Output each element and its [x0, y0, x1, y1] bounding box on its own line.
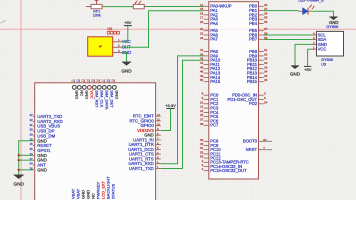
svg-text:12: 12 [157, 113, 160, 117]
svg-text:13: 13 [83, 79, 85, 82]
svg-text:GND: GND [121, 68, 132, 73]
svg-text:4P: 4P [99, 45, 102, 49]
U4 right pins RTC/UART1 [128, 113, 161, 171]
U4 bottom pins power/control [71, 176, 116, 199]
U1 right pins PD0 PD1 PD2 [228, 92, 268, 107]
svg-text:34: 34 [30, 162, 33, 166]
ground symbol (LED) [329, 17, 337, 20]
svg-text:4: 4 [202, 167, 204, 171]
U4 left pins UART2/USB/control [30, 113, 63, 172]
svg-text:GND: GND [290, 72, 301, 77]
wire NRST stub [264, 149, 272, 151]
svg-text:38: 38 [200, 122, 204, 126]
svg-text:UART1_TXD: UART1_TXD [129, 166, 154, 171]
svg-text:22: 22 [30, 118, 33, 122]
U1 right pins group PB8-PB15 [247, 48, 268, 84]
svg-text:PC7: PC7 [210, 123, 219, 128]
svg-text:23: 23 [200, 36, 204, 40]
svg-text:PB4: PB4 [249, 21, 258, 26]
svg-text:18: 18 [108, 79, 110, 82]
svg-text:PA4: PA4 [210, 21, 218, 26]
wire U2 OUT to U1 PA1 [121, 11, 204, 47]
svg-text:12: 12 [78, 79, 80, 82]
wire BOOT0 stub [264, 140, 272, 142]
potentiometer RP1 [86, 0, 104, 9]
wire U2 VCC to +5V [121, 26, 128, 42]
svg-text:NRST: NRST [246, 147, 258, 152]
junction dot [18, 169, 20, 171]
svg-text:BOOT0: BOOT0 [243, 139, 258, 144]
U1 right pins BOOT0 and NRST [243, 138, 267, 152]
sensor U3 GY906 body [317, 31, 344, 56]
svg-text:SIM_DET: SIM_DET [110, 90, 115, 108]
ground symbol (U4) [14, 175, 24, 179]
U1 left pins group PC8-PC15 [200, 138, 249, 173]
svg-text:GND: GND [75, 90, 80, 99]
svg-text:36: 36 [264, 78, 268, 82]
svg-text:PA15: PA15 [210, 79, 221, 84]
wire U2 GND down [121, 53, 127, 62]
wire RP1 right lead to photoresistor [104, 6, 134, 8]
svg-text:GND: GND [37, 167, 47, 172]
U1 left pins group PC0-PC7 [200, 92, 219, 128]
svg-text:10: 10 [157, 122, 160, 126]
svg-text:GND: GND [115, 90, 120, 99]
svg-text:VCC: VCC [318, 47, 327, 52]
wire GND stub row10 [19, 159, 33, 161]
wire U1 PB7 to U3 SDA [264, 39, 311, 41]
svg-text:15: 15 [93, 79, 95, 82]
svg-text:20: 20 [200, 20, 204, 24]
svg-text:23: 23 [30, 113, 33, 117]
svg-text:50: 50 [200, 78, 204, 82]
svg-text:+5V: +5V [124, 20, 132, 25]
svg-text:GND: GND [13, 181, 24, 187]
wire GND stub row12 [19, 169, 33, 171]
svg-text:56: 56 [264, 20, 268, 24]
svg-text:11: 11 [73, 79, 75, 82]
ground symbol (U2) [122, 62, 131, 66]
svg-text:54: 54 [264, 100, 268, 104]
IR sensor module U2 (yellow) [88, 37, 113, 56]
svg-text:SIM_RST: SIM_RST [95, 90, 100, 108]
svg-text:17: 17 [103, 79, 105, 82]
sheet crosshair vertical line [20, 0, 22, 200]
U1 left pins group PA8-PA15 [200, 48, 221, 84]
svg-text:16: 16 [98, 79, 100, 82]
svg-text:PB7: PB7 [249, 37, 258, 42]
svg-text:PB15: PB15 [247, 79, 258, 84]
svg-text:GY906: GY906 [321, 58, 332, 62]
wire U4 UART1_RXD to U1 PA9 [161, 56, 204, 164]
ground symbol (U3) [291, 66, 299, 69]
U3 pins SCL SDA GND VCC [311, 32, 327, 52]
svg-text:GY906: GY906 [326, 24, 338, 29]
junction dot [18, 159, 20, 161]
svg-text:30: 30 [30, 128, 33, 132]
svg-text:U3: U3 [321, 62, 326, 66]
U1 right pins group PB0-PB7 with numbers [249, 3, 268, 42]
wire U1 PB1 to LED D1 [264, 10, 299, 12]
svg-text:PA7: PA7 [210, 37, 218, 42]
photoresistor R (LDR) [132, 1, 146, 9]
wire LED cathode to ground [311, 11, 333, 17]
svg-text:U2: U2 [108, 27, 113, 31]
svg-text:29: 29 [30, 133, 33, 137]
svg-text:14: 14 [88, 79, 90, 82]
svg-text:PC15-OSC32_OUT: PC15-OSC32_OUT [210, 168, 247, 173]
junction dot [18, 154, 20, 156]
svg-text:PD2: PD2 [249, 101, 258, 106]
wire photoresistor to U1 PA0-WKUP [146, 6, 204, 8]
U1 left pins group PA0-PA7 with numbers [200, 3, 232, 42]
stray gray arc segment at left edge [1, 20, 6, 23]
U4 top pins SIM interface [72, 79, 119, 110]
svg-text:SIM_CLK: SIM_CLK [100, 90, 105, 107]
svg-text:100k: 100k [93, 14, 101, 18]
wire U1 PB6 to U3 SCL [264, 34, 311, 36]
power symbol +5V (U2) [124, 25, 132, 27]
svg-text:LED-YHSMW_G: LED-YHSMW_G [298, 0, 324, 2]
wire U4 GND pins to ground rail [19, 141, 33, 175]
svg-text:+5V: +5V [304, 67, 312, 72]
wire U3 VCC pin to +5V [308, 49, 311, 66]
power symbol +5V (U3) [304, 65, 311, 67]
GSM module U4 body [35, 83, 156, 201]
svg-text:NC: NC [80, 90, 85, 96]
svg-text:STATUS: STATUS [111, 183, 116, 199]
svg-text:15: 15 [30, 142, 33, 146]
sheet crosshair horizontal line [0, 28, 356, 30]
U2 pins VCC OUT GND [113, 38, 131, 55]
svg-text:19: 19 [113, 79, 115, 82]
svg-text:+3.3V: +3.3V [165, 103, 176, 108]
svg-text:VCC: VCC [90, 90, 95, 99]
svg-text:GND: GND [85, 90, 90, 99]
svg-text:25: 25 [30, 147, 33, 151]
microcontroller U1 STM32 body [209, 2, 259, 179]
wire GND stub row9 [19, 154, 33, 156]
svg-text:31: 31 [30, 123, 33, 127]
LED D1 [298, 4, 314, 14]
U2 comment 红外检测 [107, 31, 119, 34]
wire +3.3V to U4 VDD3V3 [161, 109, 171, 131]
wire U4 UART1_TXD to U1 PA10 [161, 60, 204, 168]
wire U3 GND pin to ground [295, 44, 311, 65]
